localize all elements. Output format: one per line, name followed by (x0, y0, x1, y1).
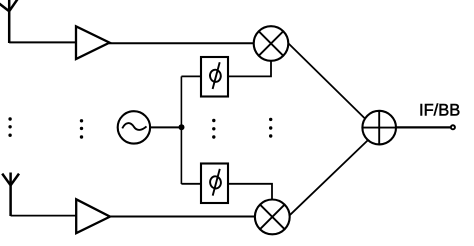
wire: junction to phase shifter P1 (181, 75, 202, 77)
phase shifter P2 (201, 164, 228, 204)
output terminal (451, 125, 455, 129)
mixer M1 (254, 26, 289, 61)
wire: amplifier A2 to mixer M2 (110, 216, 257, 218)
junction node (LO split) (179, 124, 185, 130)
wire: phase shifter P1 to mixer M1 LO port (227, 58, 271, 76)
wire: LO distribution vertical (180, 76, 182, 184)
wire: bottom antenna to amplifier A2 (11, 215, 77, 217)
ellipsis dots column 1 (8, 117, 11, 137)
mixer M2 (255, 200, 290, 235)
ellipsis dots column 4 (269, 118, 272, 138)
wire: oscillator to junction (149, 126, 182, 128)
ellipsis dots column 3 (212, 119, 215, 139)
antenna ANT2 (bottom) (2, 173, 19, 217)
svg-text:IF/BB: IF/BB (419, 102, 460, 120)
wire: top antenna to amplifier A1 (9, 41, 76, 43)
wire: combiner to output terminal (396, 126, 451, 128)
wire: mixer M2 to combiner (diagonal) (287, 139, 369, 218)
combiner (summer) (362, 111, 396, 145)
antenna ANT1 (top, clipped) (0, 0, 18, 43)
amplifier A2 (76, 199, 110, 233)
ellipsis dots column 2 (80, 119, 83, 139)
phase shifter P1 (201, 57, 228, 97)
wire: mixer M1 to combiner (diagonal) (287, 42, 369, 123)
local oscillator LO (118, 111, 150, 143)
wire: phase shifter P2 to mixer M2 LO port (227, 184, 272, 202)
amplifier A1 (76, 26, 110, 59)
wire: amplifier A1 to mixer M1 (109, 42, 256, 44)
wire: junction to phase shifter P2 (181, 183, 202, 185)
